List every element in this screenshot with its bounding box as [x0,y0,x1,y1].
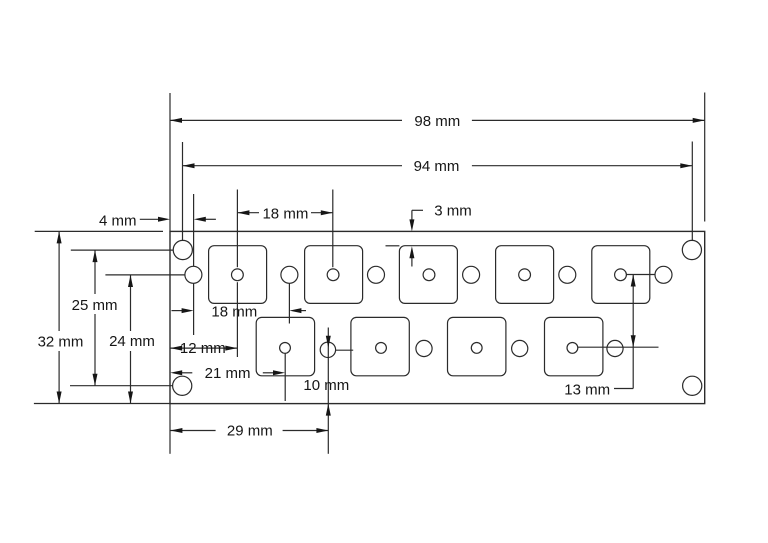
svg-text:94 mm: 94 mm [414,158,460,175]
svg-text:21 mm: 21 mm [205,365,251,382]
svg-text:25 mm: 25 mm [72,297,118,314]
svg-text:32 mm: 32 mm [38,334,84,351]
svg-text:18 mm: 18 mm [262,205,308,222]
svg-text:12 mm: 12 mm [180,340,226,357]
svg-text:18 mm: 18 mm [211,303,257,320]
svg-text:4 mm: 4 mm [99,213,137,230]
svg-text:24 mm: 24 mm [109,333,155,350]
svg-text:3 mm: 3 mm [434,202,472,219]
svg-text:10 mm: 10 mm [303,377,349,394]
svg-text:29 mm: 29 mm [227,423,273,440]
svg-text:13 mm: 13 mm [564,381,610,398]
svg-text:98 mm: 98 mm [414,113,460,130]
